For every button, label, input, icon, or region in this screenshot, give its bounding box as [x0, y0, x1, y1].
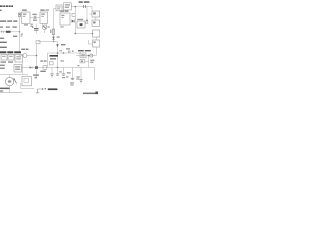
capacitor C11 — [80, 68, 82, 80]
capacitor C4 — [72, 13, 75, 16]
wire mid horizontal — [38, 42, 58, 68]
arrow to motor — [14, 79, 17, 84]
diode D5 box — [80, 60, 85, 63]
diode D2 — [52, 37, 54, 40]
node J10 — [63, 52, 65, 54]
capacitor C9 ticks — [86, 21, 88, 24]
label IC1 pin text below — [24, 24, 28, 25]
wire bottom left — [0, 92, 22, 94]
small marks — [77, 65, 79, 66]
resistor R1 — [6, 31, 11, 33]
wire box D left — [88, 40, 92, 44]
label left a — [0, 38, 4, 39]
box small J on wire — [43, 66, 47, 70]
wire left low — [0, 74, 28, 76]
node J9 — [57, 52, 59, 54]
wire K1 down — [95, 17, 97, 20]
dark label L1 PL1 — [50, 55, 59, 57]
label R3 — [50, 30, 52, 33]
label between nodes — [59, 50, 62, 51]
switch box H — [22, 77, 32, 86]
label IC3 — [60, 10, 64, 11]
transistor Q1 — [43, 23, 47, 25]
box D — [93, 40, 100, 47]
capacitor C7 — [63, 68, 65, 74]
wire horizontal y67.5 — [39, 68, 95, 81]
label under C1 — [31, 24, 33, 27]
label row GROUND — [0, 20, 17, 21]
wire main rail dark (text-like) — [0, 51, 21, 53]
box C — [93, 30, 100, 37]
wire left vertical — [19, 16, 21, 51]
wire Q1 emitter — [44, 30, 46, 34]
wire BT1 to right — [71, 7, 92, 12]
node J2 — [86, 20, 88, 22]
node J7 — [36, 55, 38, 57]
wire box drops — [4, 53, 11, 54]
wire right of IC3 — [75, 7, 92, 34]
label above rail — [21, 49, 28, 50]
box B — [92, 20, 100, 27]
label 4.7K — [40, 60, 46, 61]
label right of IC2 — [46, 9, 50, 10]
label above C10 — [66, 48, 70, 49]
node J8 — [45, 88, 46, 89]
labels left column — [0, 65, 5, 69]
wire S1-BT1 — [62, 6, 64, 8]
node J12 — [88, 55, 90, 57]
label IC1 — [22, 9, 27, 10]
capacitor C1 label — [32, 14, 37, 15]
label box A — [77, 19, 83, 20]
label Q1 — [48, 26, 50, 27]
wire to motor — [9, 75, 11, 78]
wire mid vertical — [36, 44, 38, 77]
labels under boxes — [1, 61, 14, 62]
label row values — [0, 26, 17, 27]
label under IC3 — [60, 26, 63, 27]
capacitor C5 — [51, 68, 53, 74]
box A — [77, 21, 85, 28]
box small I — [50, 62, 54, 65]
label under J — [40, 71, 46, 72]
wire timer output — [22, 67, 39, 69]
node J4 — [92, 33, 94, 35]
box G2 — [15, 54, 23, 62]
motor M circle — [5, 77, 13, 85]
ground — [36, 91, 39, 94]
connector CN1 — [18, 13, 20, 16]
label at junction — [21, 34, 23, 35]
switch S2 — [1, 31, 6, 33]
label right of D5 — [90, 60, 94, 63]
wire drop at x87 — [86, 7, 88, 21]
lamp circle — [90, 54, 93, 57]
label D2 — [57, 36, 60, 37]
diode D3 on vertical — [56, 44, 59, 47]
wire under box H — [21, 83, 34, 89]
arrow A2 — [38, 89, 44, 92]
title text top-left — [0, 5, 13, 7]
capacitor C6 — [57, 68, 59, 74]
label PNA — [61, 44, 65, 45]
timer IC3 box — [60, 13, 70, 25]
wire G2 drop — [22, 62, 24, 75]
label plus C6 — [59, 71, 61, 72]
switch S3 circle — [23, 54, 27, 58]
dark label dash — [48, 88, 58, 90]
wire R1 to vertical — [11, 31, 20, 33]
capacitor C10 ticks — [68, 50, 70, 53]
timer box M1 — [14, 65, 22, 72]
node J11 — [57, 67, 59, 69]
fuse F1 ticks — [84, 5, 86, 8]
label mid caps — [67, 72, 71, 73]
wire D5 right — [85, 56, 89, 68]
title mark line2 — [0, 10, 2, 11]
diode D4 — [30, 66, 33, 68]
wire horizontal right rail — [48, 52, 82, 54]
plus mark — [72, 50, 74, 52]
label left c — [0, 47, 7, 48]
wire mid2 vertical — [47, 53, 49, 68]
battery BT1 box — [64, 3, 72, 10]
timer IC1 box — [22, 12, 31, 23]
junction blob — [35, 66, 38, 69]
capacitor C1 — [30, 16, 40, 18]
box F — [1, 54, 7, 60]
label TURNTABLE — [0, 88, 10, 90]
label OUT RACK — [79, 1, 90, 3]
wire relay drop — [95, 47, 97, 56]
box small E — [36, 41, 40, 44]
resistor R3 vertical — [52, 29, 54, 35]
label bottom right — [83, 93, 98, 95]
diode D1 — [72, 20, 75, 23]
timer IC2 box — [40, 12, 48, 23]
wire C-D — [95, 37, 97, 40]
label left b — [0, 42, 7, 43]
relay K1 box top right — [92, 11, 100, 17]
box G — [8, 54, 14, 60]
node J3 — [75, 33, 77, 35]
wire motor bottom — [9, 86, 11, 93]
capacitor C8 — [72, 68, 74, 79]
label RY1 CONT — [78, 50, 91, 51]
switch S1 box — [56, 5, 62, 11]
node J6 — [53, 41, 55, 43]
label IC2 — [40, 9, 44, 10]
node J1 — [75, 6, 77, 8]
label R2 — [13, 36, 17, 37]
node J5 — [19, 31, 21, 33]
wire S1 left — [54, 9, 57, 42]
relay contact row wire — [76, 55, 96, 57]
label small under — [61, 60, 64, 61]
wire K1 left stub — [90, 13, 93, 15]
label right — [50, 58, 56, 59]
dark end mark — [95, 92, 98, 95]
capacitor C2 electrolytic — [35, 23, 37, 28]
label switch — [33, 74, 39, 75]
lamp box — [80, 53, 86, 58]
label small — [0, 90, 3, 91]
